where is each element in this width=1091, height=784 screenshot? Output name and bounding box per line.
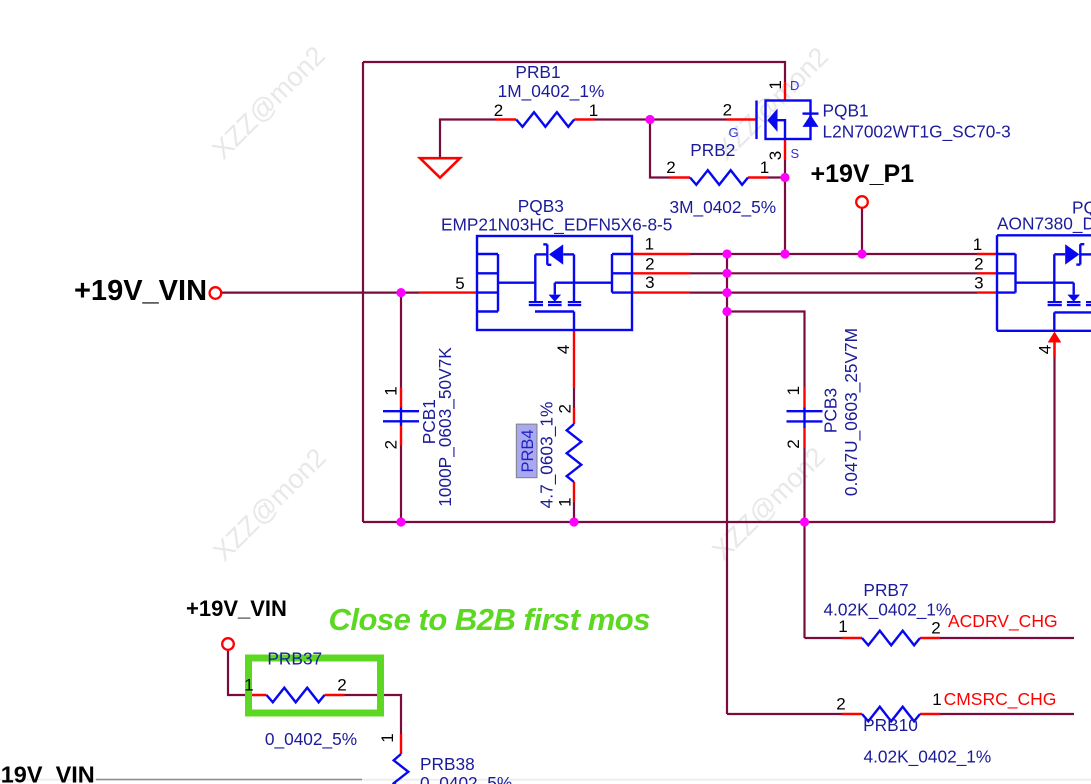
pin stub PRB10.2	[842, 713, 862, 715]
pin stub PRB2.1	[748, 176, 768, 178]
port +19V_VIN lower	[222, 638, 234, 650]
svg-text:S: S	[791, 146, 800, 161]
pin stub PQB4.4	[1053, 343, 1055, 359]
svg-text:AON7380_DFN3X3_8L: AON7380_DFN3X3_8L	[997, 214, 1091, 234]
wire ACDRV_CHG	[940, 637, 1074, 639]
pin stub PCB3.2	[803, 428, 805, 448]
wire PQB1 source down	[784, 160, 786, 254]
pin stub PQB1.D	[784, 82, 786, 101]
svg-text:PCB3: PCB3	[821, 388, 841, 433]
pin stub PQB3.5	[419, 291, 477, 293]
junction node bus1 tie	[722, 249, 731, 258]
svg-text:4: 4	[554, 345, 573, 354]
wire PCB1 lower	[400, 446, 402, 523]
transistor PQB1	[757, 101, 819, 140]
pin stub PRB10.1	[920, 713, 940, 715]
svg-text:XZZ@mon2: XZZ@mon2	[706, 441, 830, 565]
svg-text:1: 1	[973, 235, 982, 254]
svg-text:2: 2	[382, 440, 401, 449]
resistor PRB4 body vertical	[567, 424, 582, 482]
pin stub PRB7.2	[920, 637, 940, 639]
svg-text:1: 1	[838, 617, 847, 636]
svg-text:2: 2	[723, 101, 732, 120]
junction node PCB1 top	[396, 288, 405, 297]
svg-text:1: 1	[589, 101, 598, 120]
svg-text:1: 1	[555, 497, 574, 506]
resistor PRB10 body	[862, 707, 920, 722]
svg-text:1000P_0603_50V7K: 1000P_0603_50V7K	[435, 347, 455, 507]
junction node PCB3 bottom	[800, 517, 809, 526]
wire drain bus 3	[690, 292, 977, 294]
pin stub PRB2.2	[670, 176, 690, 178]
pin stub PQB3.1	[632, 253, 690, 255]
svg-text:2: 2	[836, 695, 845, 714]
svg-text:2: 2	[337, 676, 346, 695]
svg-text:+19V_VIN: +19V_VIN	[0, 762, 95, 784]
svg-text:2: 2	[974, 254, 983, 273]
pin4 arrow PQB4	[1048, 332, 1062, 343]
svg-text:+19V_VIN: +19V_VIN	[186, 596, 287, 621]
wire PRB2 to PQB1 source node	[768, 176, 785, 178]
svg-text:PRB37: PRB37	[267, 649, 322, 669]
resistor PRB1 body	[516, 112, 574, 127]
resistor PRB38 body vertical clipped	[394, 754, 409, 784]
pin stub PQB3.4	[573, 330, 575, 388]
gray sheet line bottom-left	[96, 779, 362, 781]
svg-text:L2N7002WT1G_SC70-3: L2N7002WT1G_SC70-3	[823, 122, 1011, 142]
resistor PRB2 body	[690, 170, 748, 185]
pin stub PRB37.2	[325, 694, 345, 696]
svg-text:Close to B2B first mos: Close to B2B first mos	[329, 602, 651, 637]
junction node PCB1 bottom	[396, 517, 405, 526]
wire lower port drop	[228, 649, 247, 695]
pin stub PRB4.2	[573, 408, 575, 424]
svg-text:PRB4: PRB4	[519, 429, 537, 472]
svg-text:0.047U_0603_25V7M: 0.047U_0603_25V7M	[841, 328, 861, 496]
wire to PRB7	[805, 637, 843, 639]
pin stub PRB1.2	[496, 118, 516, 120]
wire PQB4 pin4 lower	[1053, 342, 1055, 358]
pin stub PRB7.1	[842, 637, 862, 639]
svg-text:2: 2	[784, 439, 803, 448]
pin stub PQB1.S	[784, 139, 786, 160]
wire PRB37 to PRB38	[345, 695, 402, 734]
svg-text:PRB38: PRB38	[420, 754, 475, 774]
svg-text:PRB1: PRB1	[515, 62, 560, 82]
junction node PRB1/gate	[645, 115, 654, 124]
pin stub PRB1.1	[574, 118, 594, 120]
wire CMSRC_CHG	[940, 713, 1074, 715]
svg-text:1: 1	[645, 235, 654, 254]
resistor PRB7 body	[862, 631, 920, 646]
capacitor PCB3 plates	[787, 410, 823, 412]
svg-text:PQB1: PQB1	[823, 101, 869, 121]
svg-text:2: 2	[555, 404, 574, 413]
mosfet PQB3	[477, 236, 632, 330]
highlight box PRB37	[249, 658, 381, 713]
wire top bus	[363, 62, 785, 82]
svg-text:3: 3	[766, 151, 785, 160]
wire +19V_VIN input	[221, 292, 420, 294]
junction node PRB4 bottom	[569, 517, 578, 526]
wire PRB1 to gate node	[595, 118, 727, 120]
svg-text:5: 5	[455, 274, 464, 293]
junction node bus1 +19V_P1	[857, 249, 866, 258]
svg-text:+19V_P1: +19V_P1	[811, 160, 915, 188]
svg-text:XZZ@mon2: XZZ@mon2	[207, 442, 331, 566]
wire PRB4 lower	[573, 502, 575, 522]
pin stub PQB4.2	[977, 272, 997, 274]
svg-text:PRB7: PRB7	[863, 580, 908, 600]
pin stub PCB1.1	[400, 388, 402, 408]
svg-text:CMSRC_CHG: CMSRC_CHG	[944, 689, 1057, 710]
pin stub PQB4.1	[977, 253, 997, 255]
pin stub PQB3.3	[632, 291, 690, 293]
pin stub PRB37.1	[247, 694, 267, 696]
svg-text:3: 3	[645, 273, 654, 292]
svg-text:4.02K_0402_1%: 4.02K_0402_1%	[863, 747, 991, 767]
pin stub PQB1.G	[727, 118, 756, 120]
sheet border faint bottom	[0, 779, 1091, 781]
selection highlight PRB4	[516, 424, 537, 478]
junction node bus3 tie	[722, 288, 731, 297]
svg-text:1: 1	[766, 80, 785, 89]
ground symbol	[420, 158, 460, 178]
svg-text:3M_0402_5%: 3M_0402_5%	[669, 197, 776, 217]
wire PQB3 pin4 to PRB4	[573, 388, 575, 408]
port +19V_VIN left	[210, 287, 222, 299]
pin stub PCB3.1	[803, 387, 805, 408]
svg-text:1: 1	[244, 676, 253, 695]
wire to PRB10	[727, 713, 842, 715]
svg-text:1: 1	[784, 386, 803, 395]
svg-text:0_0402_5%: 0_0402_5%	[265, 729, 357, 749]
svg-text:PQB3: PQB3	[518, 196, 564, 216]
svg-text:0_0402_5%: 0_0402_5%	[420, 773, 512, 784]
pin stub PQB3.2	[632, 272, 690, 274]
svg-text:D: D	[790, 78, 799, 93]
svg-text:1: 1	[378, 733, 397, 742]
wire bottom bus	[363, 521, 1055, 523]
wire below PCB3	[803, 448, 805, 638]
pin stub PRB4.1	[573, 482, 575, 502]
svg-text:2: 2	[494, 101, 503, 120]
svg-text:2: 2	[645, 254, 654, 273]
wire branch to PCB3	[727, 312, 805, 388]
resistor PRB37 body	[267, 688, 325, 703]
wire drain bus 2	[690, 272, 977, 274]
capacitor PCB1 plates	[383, 410, 419, 412]
svg-text:4.7_0603_1%: 4.7_0603_1%	[537, 402, 557, 509]
svg-text:ACDRV_CHG: ACDRV_CHG	[948, 611, 1058, 632]
junction node PQB1 source / PRB2	[780, 173, 789, 182]
wire vertical drain tie	[726, 254, 728, 714]
svg-text:PRB10: PRB10	[863, 715, 918, 735]
wire node down to PRB2	[650, 120, 670, 178]
svg-text:4: 4	[1036, 345, 1055, 354]
svg-text:2: 2	[931, 619, 940, 638]
wire +19V_P1 drop	[861, 208, 863, 255]
port +19V_P1	[856, 196, 868, 208]
svg-text:G: G	[729, 125, 739, 140]
svg-text:+19V_VIN: +19V_VIN	[74, 275, 207, 307]
svg-text:2: 2	[666, 158, 675, 177]
wire left border	[362, 62, 364, 522]
junction node bus2 tie	[722, 269, 731, 278]
wire ground stem	[440, 120, 496, 159]
junction node bus1 PQB1 source	[780, 249, 789, 258]
svg-text:1: 1	[932, 690, 941, 709]
wire PCB1 upper	[400, 293, 402, 388]
pin stub PRB38.1	[400, 734, 402, 754]
wire drain bus 1	[690, 253, 977, 255]
svg-text:PRB2: PRB2	[690, 140, 735, 160]
svg-text:EMP21N03HC_EDFN5X6-8-5: EMP21N03HC_EDFN5X6-8-5	[441, 215, 672, 235]
junction node branch	[722, 307, 731, 316]
svg-text:1M_0402_1%: 1M_0402_1%	[498, 81, 605, 101]
pin stub PQB4.3	[977, 291, 997, 293]
wire right riser to PQB4 pin4	[1053, 358, 1055, 522]
mosfet PQB4 clipped right	[997, 235, 1091, 330]
pin stub PCB1.2	[400, 426, 402, 446]
svg-text:3: 3	[974, 273, 983, 292]
svg-text:1: 1	[382, 386, 401, 395]
svg-text:XZZ@mon2: XZZ@mon2	[206, 40, 330, 164]
